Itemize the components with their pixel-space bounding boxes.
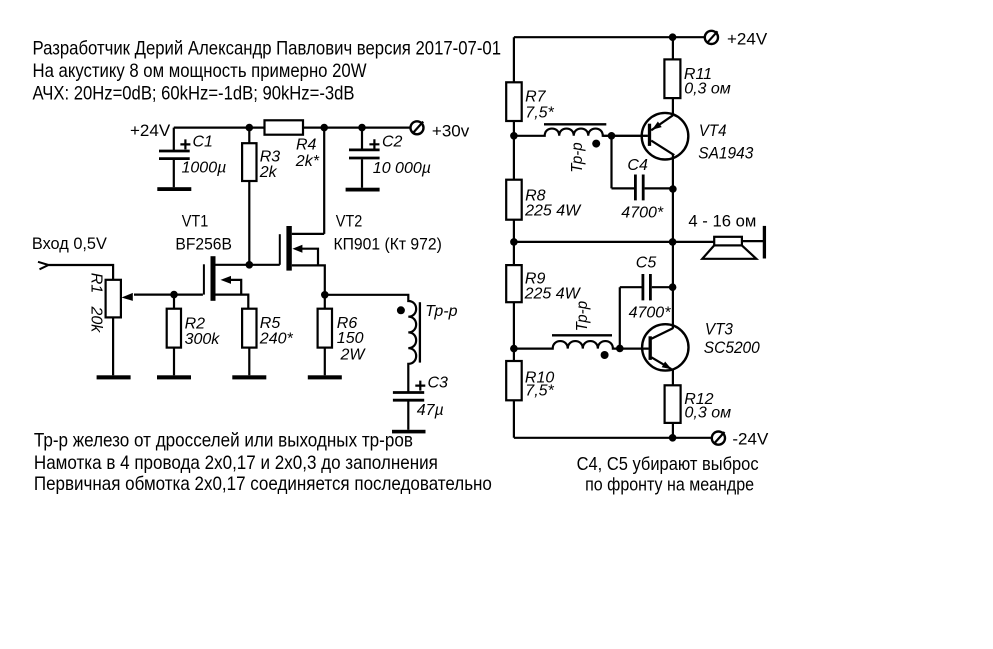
svg-text:300k: 300k [185, 331, 221, 348]
svg-text:240*: 240* [259, 330, 294, 347]
svg-text:0,3 ом: 0,3 ом [685, 405, 732, 422]
svg-text:225 4W: 225 4W [524, 203, 582, 220]
svg-text:C3: C3 [428, 375, 449, 392]
svg-text:C5: C5 [636, 255, 657, 272]
svg-text:SA1943: SA1943 [698, 144, 753, 163]
svg-text:Вход 0,5V: Вход 0,5V [32, 234, 108, 253]
svg-text:R1: R1 [88, 273, 105, 293]
svg-text:2k*: 2k* [295, 153, 320, 170]
svg-text:Тр-р: Тр-р [425, 303, 457, 320]
svg-text:C4: C4 [627, 157, 648, 174]
svg-text:Первичная обмотка 2х0,17 соеди: Первичная обмотка 2х0,17 соединяется пос… [34, 473, 492, 495]
svg-text:225 4W: 225 4W [524, 286, 582, 303]
svg-text:VT4: VT4 [699, 121, 727, 140]
svg-text:Тр-р железо от дросселей или в: Тр-р железо от дросселей или выходных тр… [34, 430, 413, 452]
svg-text:АЧХ: 20Hz=0dB; 60kHz=-1dB; 90k: АЧХ: 20Hz=0dB; 60kHz=-1dB; 90kHz=-3dB [33, 82, 355, 104]
svg-text:4 - 16 ом: 4 - 16 ом [688, 212, 756, 231]
svg-text:SC5200: SC5200 [704, 338, 760, 357]
svg-text:7,5*: 7,5* [525, 383, 554, 400]
svg-text:150: 150 [337, 330, 364, 347]
svg-text:20k: 20k [88, 306, 105, 334]
svg-text:Тр-р: Тр-р [569, 142, 586, 173]
svg-text:C2: C2 [382, 134, 403, 151]
svg-text:R7: R7 [525, 89, 547, 106]
svg-text:4700*: 4700* [621, 204, 664, 221]
svg-text:VT1: VT1 [182, 211, 209, 230]
svg-text:0,3 ом: 0,3 ом [684, 81, 731, 98]
svg-text:10 000µ: 10 000µ [373, 160, 431, 177]
svg-text:47µ: 47µ [417, 402, 444, 419]
svg-text:C4, C5 убирают выброс: C4, C5 убирают выброс [577, 453, 759, 474]
svg-text:BF256B: BF256B [175, 234, 232, 253]
svg-text:R4: R4 [296, 137, 317, 154]
svg-text:Намотка в 4 провода 2х0,17 и 2: Намотка в 4 провода 2х0,17 и 2х0,3 до за… [34, 452, 438, 474]
svg-text:2W: 2W [340, 346, 367, 363]
svg-text:+24V: +24V [130, 121, 171, 140]
svg-text:7,5*: 7,5* [525, 104, 554, 121]
svg-text:+24V: +24V [727, 30, 768, 49]
svg-text:VT2: VT2 [336, 211, 363, 230]
svg-text:по фронту на меандре: по фронту на меандре [585, 473, 754, 494]
svg-text:+30v: +30v [432, 121, 470, 140]
svg-text:-24V: -24V [732, 430, 769, 449]
svg-text:Тр-р: Тр-р [574, 301, 591, 332]
svg-text:КП901 (Кт 972): КП901 (Кт 972) [334, 234, 442, 253]
svg-text:VT3: VT3 [705, 319, 733, 338]
svg-text:Разработчик Дерий Александр Па: Разработчик Дерий Александр Павлович вер… [33, 38, 502, 60]
svg-text:2k: 2k [259, 164, 278, 181]
svg-text:1000µ: 1000µ [182, 159, 227, 176]
svg-text:На акустику 8 ом мощность прим: На акустику 8 ом мощность примерно 20W [33, 60, 367, 82]
svg-text:4700*: 4700* [629, 305, 672, 322]
svg-text:C1: C1 [193, 133, 213, 150]
